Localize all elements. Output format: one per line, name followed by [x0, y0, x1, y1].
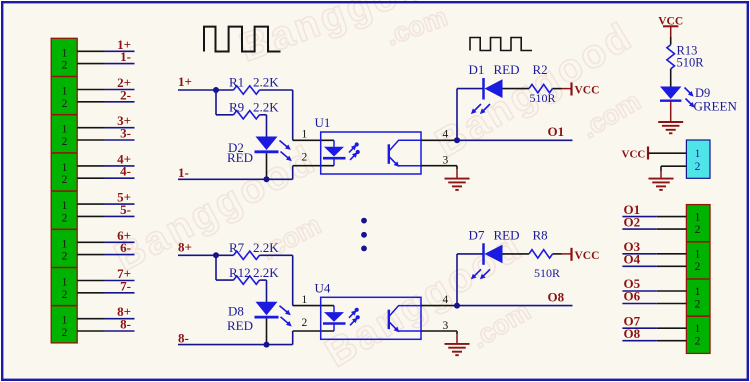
svg-text:1: 1	[62, 124, 68, 136]
label R2	[533, 62, 548, 77]
net label 8+	[178, 239, 192, 254]
connector J2 block 4 pin 2 number	[695, 336, 701, 348]
svg-text:O2: O2	[624, 214, 641, 229]
resistor R9	[216, 111, 267, 119]
wire R12 to D8	[266, 280, 268, 302]
U4 pin 2 wire	[293, 330, 334, 332]
label D2	[228, 140, 244, 155]
net label O3	[624, 239, 641, 254]
connector J2 block 3 pin 1 number	[695, 286, 701, 298]
U4 pin 1 wire	[293, 305, 334, 307]
svg-text:VCC: VCC	[575, 250, 600, 262]
U4 pin 2 number	[302, 317, 308, 329]
svg-text:1: 1	[62, 315, 68, 327]
connector J2 block 4 pin 1 number	[695, 323, 701, 335]
value 2.2K of R7	[253, 240, 279, 255]
connector J3 (power)	[686, 140, 710, 178]
connector J2 block 1 pin 1 number	[695, 211, 701, 223]
net label 8-	[120, 317, 131, 332]
wire O6 to J2	[622, 303, 686, 305]
label R9	[229, 100, 244, 115]
label U4	[315, 280, 331, 295]
wire net O1	[457, 139, 573, 141]
opto-coupler U1 body	[321, 132, 421, 174]
junction at D8 cathode	[264, 342, 270, 348]
resistor R8	[503, 250, 562, 258]
junction at U1 pin 4	[454, 137, 460, 143]
svg-text:1: 1	[302, 294, 308, 306]
opto-coupler U4 phototransistor	[389, 306, 421, 333]
resistor R2	[503, 84, 562, 92]
power port VCC at R13	[658, 16, 683, 28]
connector J1 block 7 pin 1 number	[62, 277, 68, 289]
value 2.2K of R1	[253, 75, 279, 90]
LED D2 emission arrows	[280, 141, 292, 162]
net label 8-	[178, 330, 189, 345]
value 510R of R2	[530, 91, 556, 105]
value GREEN of D9	[694, 99, 738, 114]
net label O2	[624, 214, 641, 229]
connector J2 block separators	[686, 242, 710, 316]
connector J1 block 1 pin 1 number	[62, 47, 68, 59]
svg-text:2: 2	[62, 136, 68, 148]
connector J1 block 3 pin 2 number	[62, 136, 68, 148]
wire 7- from J1	[77, 292, 134, 294]
svg-text:R2: R2	[533, 62, 548, 77]
svg-text:8+: 8+	[178, 239, 192, 254]
net label 3-	[120, 126, 131, 141]
svg-text:6-: 6-	[120, 240, 131, 255]
connector J1 block 8 pin 2 number	[62, 327, 68, 339]
wire VCC to R13	[670, 26, 672, 44]
opto-coupler U4 body	[321, 297, 421, 339]
U4 pin 4 number	[443, 294, 449, 306]
svg-text:VCC: VCC	[622, 149, 646, 161]
net label 5+	[117, 190, 131, 205]
net label 8+	[117, 304, 131, 319]
value 2.2K of R12	[253, 265, 279, 280]
svg-text:U4: U4	[315, 280, 331, 295]
U1 pin 4 number	[443, 129, 449, 141]
svg-text:1: 1	[62, 238, 68, 250]
net label 7-	[120, 278, 131, 293]
svg-text:1: 1	[695, 249, 701, 261]
wire 3+ from J1	[77, 127, 134, 129]
svg-text:1-: 1-	[178, 165, 189, 180]
input waveform symbol	[204, 27, 281, 52]
wire net 8-	[178, 344, 293, 346]
svg-text:2: 2	[695, 224, 701, 236]
ground at D9	[658, 101, 683, 134]
LED D9	[660, 87, 681, 101]
svg-text:4-: 4-	[120, 164, 131, 179]
svg-text:2.2K: 2.2K	[253, 100, 279, 115]
svg-text:RED: RED	[227, 318, 253, 333]
net label O7	[624, 313, 641, 328]
U1 pin 3 wire	[421, 165, 457, 167]
LED D1	[457, 78, 503, 100]
resistor R7	[216, 251, 293, 259]
svg-text:2.2K: 2.2K	[253, 265, 279, 280]
wire 8- from J1	[77, 330, 134, 332]
svg-text:2: 2	[62, 251, 68, 263]
svg-text:8-: 8-	[120, 317, 131, 332]
U1 pin 3 number	[443, 155, 449, 167]
net label 1-	[178, 165, 189, 180]
value RED of D1	[494, 62, 520, 77]
net label 2+	[117, 75, 131, 90]
svg-text:RED: RED	[227, 150, 253, 165]
wire O8 to J2	[622, 340, 686, 342]
svg-text:D8: D8	[228, 304, 244, 319]
connector J2 block 1 pin 2 number	[695, 224, 701, 236]
label R13	[677, 44, 698, 58]
svg-text:7-: 7-	[120, 278, 131, 293]
wire 8+ from J1	[77, 318, 134, 320]
output waveform symbol	[470, 38, 532, 51]
LED D9 emission arrows	[685, 88, 695, 108]
svg-text:2: 2	[62, 289, 68, 301]
net label 6+	[117, 228, 131, 243]
net label 5-	[120, 202, 131, 217]
svg-text:2: 2	[62, 327, 68, 339]
connector J1 block separators	[51, 77, 77, 306]
wire 5+ from J1	[77, 203, 134, 205]
ground at U4 pin 3	[445, 331, 470, 355]
svg-text:510R: 510R	[530, 91, 556, 105]
net label 1-	[120, 49, 131, 64]
net label 7+	[117, 266, 131, 281]
opto-coupler U1 phototransistor	[389, 140, 421, 167]
svg-text:1: 1	[62, 277, 68, 289]
U4 pin 3 number	[443, 320, 449, 332]
U1 pin 2 number	[302, 152, 308, 164]
net label 3+	[117, 113, 131, 128]
wire net 8+	[178, 254, 216, 256]
svg-text:1+: 1+	[178, 74, 192, 89]
wire pin 4 up to D7	[456, 254, 458, 306]
svg-text:3: 3	[443, 320, 449, 332]
wire VCC to J3 pin 1	[649, 152, 687, 154]
svg-text:2: 2	[62, 212, 68, 224]
LED D2	[255, 137, 279, 180]
wire up to pin 2	[292, 331, 294, 345]
connector J2 (outputs O1..O8)	[686, 205, 710, 354]
LED D1 emission arrows	[471, 104, 490, 114]
svg-text:R8: R8	[533, 227, 548, 242]
wire O3 to J2	[622, 253, 686, 255]
svg-text:1-: 1-	[120, 49, 131, 64]
svg-text:2: 2	[62, 174, 68, 186]
power port VCC at J3	[622, 147, 649, 161]
wire O4 to J2	[622, 265, 686, 267]
value 510R of R13	[677, 56, 705, 70]
connector J1 (inputs 1..8)	[51, 38, 77, 343]
wire 7+ from J1	[77, 280, 134, 282]
svg-text:U1: U1	[315, 115, 331, 130]
svg-text:R7: R7	[229, 240, 245, 255]
wire O2 to J2	[622, 228, 686, 230]
wire net O8	[457, 305, 573, 307]
svg-text:O6: O6	[624, 289, 641, 304]
svg-text:R1: R1	[229, 75, 244, 90]
junction at R7 input	[213, 252, 219, 258]
wire 4+ from J1	[77, 165, 134, 167]
svg-text:O1: O1	[548, 124, 565, 139]
svg-text:1: 1	[695, 286, 701, 298]
U4 pin 3 wire	[421, 330, 457, 332]
connector J1 block 1 pin 2 number	[62, 60, 68, 72]
connector J1 block 6 pin 1 number	[62, 238, 68, 250]
connector J2 block 2 pin 2 number	[695, 261, 701, 273]
LED D8	[255, 302, 279, 345]
opto-coupler U1 light arrows	[349, 142, 360, 160]
net label O8	[624, 326, 641, 341]
resistor R12	[216, 276, 267, 284]
net label 4+	[117, 151, 131, 166]
opto-coupler U4 light arrows	[349, 308, 360, 326]
label R1	[229, 75, 244, 90]
wire R1 to pin 1	[292, 90, 294, 140]
svg-text:2: 2	[695, 161, 701, 173]
svg-text:5-: 5-	[120, 202, 131, 217]
label R12	[229, 265, 251, 280]
connector J1 block 4 pin 1 number	[62, 162, 68, 174]
resistor R13	[667, 45, 675, 69]
svg-text:510R: 510R	[677, 56, 705, 70]
ground at U1 pin 3	[445, 166, 470, 190]
net label O5	[624, 276, 641, 291]
svg-text:O8: O8	[548, 289, 565, 304]
LED D7 emission arrows	[471, 269, 490, 279]
wire 2- from J1	[77, 101, 134, 103]
connector J1 block 2 pin 1 number	[62, 86, 68, 98]
label D1	[469, 62, 485, 77]
junction at D2 cathode	[264, 176, 270, 182]
svg-text:2: 2	[695, 336, 701, 348]
U1 pin 1 wire	[293, 139, 334, 141]
net label 4-	[120, 164, 131, 179]
wire down to R9	[215, 90, 217, 115]
ground at J3	[649, 171, 674, 190]
label D9	[695, 86, 710, 100]
net label 1+	[178, 74, 192, 89]
wire 1+ from J1	[77, 50, 134, 52]
wire pin 4 up to D1	[456, 89, 458, 141]
U1 pin 1 number	[302, 129, 308, 141]
connector J1 block 2 pin 2 number	[62, 98, 68, 110]
value RED of D2	[227, 150, 253, 165]
net label O1	[548, 124, 565, 139]
svg-text:O8: O8	[624, 326, 641, 341]
wire J3 pin 2 to ground	[661, 166, 686, 171]
svg-text:1: 1	[302, 129, 308, 141]
wire up to pin 2	[292, 166, 294, 180]
svg-text:D1: D1	[469, 62, 485, 77]
svg-text:4: 4	[443, 129, 449, 141]
net label O6	[624, 289, 641, 304]
svg-text:RED: RED	[494, 227, 520, 242]
junction at U4 pin 4	[454, 303, 460, 309]
svg-text:3-: 3-	[120, 126, 131, 141]
net label O1	[624, 202, 641, 217]
wire 2+ from J1	[77, 89, 134, 91]
svg-text:4: 4	[443, 294, 449, 306]
wire O5 to J2	[622, 290, 686, 292]
connector J2 block 2 pin 1 number	[695, 249, 701, 261]
connector J3 pin 2 number	[695, 161, 701, 173]
U1 pin 2 wire	[293, 165, 334, 167]
svg-text:VCC: VCC	[575, 85, 600, 97]
svg-text:2-: 2-	[120, 87, 131, 102]
connector J1 block 8 pin 1 number	[62, 315, 68, 327]
LED D8 emission arrows	[280, 306, 292, 327]
wire net 1+	[178, 89, 216, 91]
label D8	[228, 304, 244, 319]
connector J2 block 3 pin 2 number	[695, 298, 701, 310]
U4 pin 1 number	[302, 294, 308, 306]
svg-text:1: 1	[62, 86, 68, 98]
svg-text:1: 1	[695, 323, 701, 335]
connector J1 block 5 pin 1 number	[62, 200, 68, 212]
opto-coupler U4 internal LED	[323, 306, 346, 331]
wire 6- from J1	[77, 254, 134, 256]
wire R13 to D9	[670, 69, 672, 87]
label R8	[533, 227, 548, 242]
wire 5- from J1	[77, 215, 134, 217]
wire 1- from J1	[77, 63, 134, 65]
net label 2-	[120, 87, 131, 102]
value RED of D7	[494, 227, 520, 242]
connector J3 pin 1 number	[695, 148, 701, 160]
svg-text:2.2K: 2.2K	[253, 75, 279, 90]
wire R7 to pin 1	[292, 255, 294, 305]
svg-text:2: 2	[302, 152, 308, 164]
LED D7	[457, 243, 503, 264]
wire 4- from J1	[77, 177, 134, 179]
U1 pin 4 wire	[421, 139, 457, 141]
svg-text:1: 1	[62, 200, 68, 212]
svg-text:510R: 510R	[534, 266, 560, 280]
svg-text:2: 2	[695, 261, 701, 273]
net label O4	[624, 252, 641, 267]
connector J1 block 3 pin 1 number	[62, 124, 68, 136]
svg-text:R9: R9	[229, 100, 244, 115]
value 2.2K of R9	[253, 100, 279, 115]
svg-text:RED: RED	[494, 62, 520, 77]
opto-coupler U1 internal LED	[323, 140, 346, 165]
svg-text:GREEN: GREEN	[694, 99, 738, 114]
svg-text:2: 2	[62, 98, 68, 110]
svg-text:2: 2	[302, 317, 308, 329]
net label 6-	[120, 240, 131, 255]
net label 1+	[117, 37, 131, 52]
wire O1 to J2	[622, 216, 686, 218]
svg-text:D7: D7	[469, 227, 485, 242]
connector J1 block 6 pin 2 number	[62, 251, 68, 263]
svg-text:2: 2	[62, 60, 68, 72]
wire 3- from J1	[77, 139, 134, 141]
svg-text:1: 1	[695, 148, 701, 160]
U4 pin 4 wire	[421, 305, 457, 307]
svg-text:R12: R12	[229, 265, 251, 280]
label R7	[229, 240, 245, 255]
continuation dots	[361, 218, 367, 252]
power port VCC at R2	[562, 83, 600, 97]
svg-text:1: 1	[62, 47, 68, 59]
svg-text:2.2K: 2.2K	[253, 240, 279, 255]
label D7	[469, 227, 485, 242]
wire 6+ from J1	[77, 241, 134, 243]
connector J1 block 5 pin 2 number	[62, 212, 68, 224]
svg-text:3: 3	[443, 155, 449, 167]
svg-text:1: 1	[62, 162, 68, 174]
svg-text:8-: 8-	[178, 330, 189, 345]
power port VCC at R8	[562, 248, 600, 262]
connector J1 block 7 pin 2 number	[62, 289, 68, 301]
svg-text:1: 1	[695, 211, 701, 223]
value 510R of R8	[534, 266, 560, 280]
wire R9 to D2	[266, 115, 268, 137]
net label O8	[548, 289, 565, 304]
value RED of D8	[227, 318, 253, 333]
junction at R1 input	[213, 87, 219, 93]
resistor R1	[216, 86, 293, 94]
connector J1 block 4 pin 2 number	[62, 174, 68, 186]
wire down to R12	[215, 255, 217, 280]
label U1	[315, 115, 331, 130]
svg-text:2: 2	[695, 298, 701, 310]
wire O7 to J2	[622, 327, 686, 329]
wire net 1-	[178, 178, 293, 180]
svg-text:O4: O4	[624, 252, 641, 267]
